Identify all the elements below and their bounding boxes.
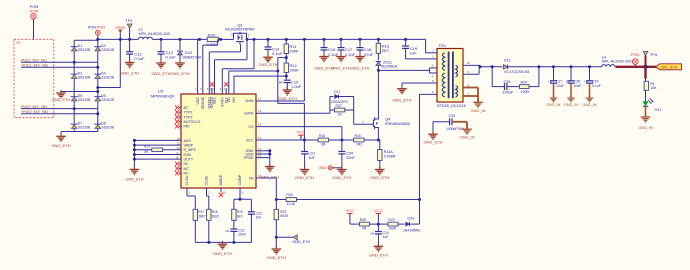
svg-text:HV: HV bbox=[566, 80, 570, 84]
svg-text:R30: R30 bbox=[287, 193, 293, 197]
svg-text:IPB156N06N06: IPB156N06N06 bbox=[385, 122, 410, 126]
svg-text:GND_ETH: GND_ETH bbox=[213, 251, 232, 256]
svg-text:200K: 200K bbox=[290, 49, 300, 54]
svg-text:TR1: TR1 bbox=[439, 43, 447, 48]
svg-text:MPL-AL5030-100: MPL-AL5030-100 bbox=[602, 60, 632, 64]
svg-text:MODE: MODE bbox=[219, 174, 223, 185]
svg-text:GND_IN: GND_IN bbox=[638, 126, 653, 130]
svg-text:1uF: 1uF bbox=[383, 235, 389, 239]
svg-text:GND_ETH: GND_ETH bbox=[267, 255, 286, 260]
svg-text:C27: C27 bbox=[556, 80, 562, 84]
svg-text:GATE: GATE bbox=[244, 112, 254, 116]
svg-text:15: 15 bbox=[258, 123, 262, 127]
svg-text:VS-4TQ100S-M3: VS-4TQ100S-M3 bbox=[504, 70, 529, 74]
svg-text:HV: HV bbox=[225, 229, 229, 233]
svg-text:SS310B: SS310B bbox=[101, 126, 114, 130]
svg-text:COMP: COMP bbox=[238, 174, 242, 185]
svg-text:AVIN: AVIN bbox=[245, 99, 254, 103]
svg-text:TYP2: TYP2 bbox=[184, 115, 193, 119]
svg-text:SS310B: SS310B bbox=[78, 48, 91, 52]
svg-text:R_MPS: R_MPS bbox=[184, 148, 197, 152]
svg-text:HV: HV bbox=[584, 80, 588, 84]
svg-text:11.4K: 11.4K bbox=[287, 202, 296, 206]
svg-text:0.1uF: 0.1uF bbox=[592, 84, 601, 88]
svg-text:GND_ETH: GND_ETH bbox=[52, 98, 70, 102]
svg-text:R21: R21 bbox=[280, 210, 286, 214]
svg-text:1R2: 1R2 bbox=[356, 142, 362, 146]
svg-text:2R: 2R bbox=[321, 142, 326, 146]
svg-text:GND_ETH: GND_ETH bbox=[332, 175, 351, 180]
svg-text:0.1uF: 0.1uF bbox=[166, 54, 177, 59]
svg-text:1nF: 1nF bbox=[256, 215, 262, 219]
svg-text:100uF: 100uF bbox=[503, 91, 514, 95]
svg-text:1uF: 1uF bbox=[308, 156, 315, 160]
svg-text:2: 2 bbox=[248, 33, 250, 37]
svg-text:1R: 1R bbox=[338, 112, 343, 116]
svg-text:R18: R18 bbox=[212, 210, 218, 214]
svg-text:MPL-AL5030-100: MPL-AL5030-100 bbox=[139, 31, 171, 36]
svg-text:TP4: TP4 bbox=[650, 52, 658, 57]
svg-text:EFD25_10/12/16: EFD25_10/12/16 bbox=[437, 104, 466, 108]
svg-text:R24: R24 bbox=[521, 80, 528, 84]
svg-text:R1: R1 bbox=[650, 82, 655, 86]
svg-text:GND_ETH: GND_ETH bbox=[295, 175, 314, 180]
svg-text:DUTY: DUTY bbox=[184, 158, 194, 162]
svg-text:0.008R: 0.008R bbox=[384, 155, 396, 159]
svg-text:SS310B: SS310B bbox=[78, 98, 91, 102]
svg-text:HV: HV bbox=[548, 80, 552, 84]
svg-text:14: 14 bbox=[258, 136, 262, 140]
svg-text:EN: EN bbox=[227, 97, 231, 102]
svg-text:VCC: VCC bbox=[374, 208, 383, 213]
svg-text:28K7: 28K7 bbox=[198, 214, 206, 218]
svg-text:GND_ETH: GND_ETH bbox=[350, 66, 369, 71]
svg-text:10uF: 10uF bbox=[556, 84, 564, 88]
svg-text:GND_IN: GND_IN bbox=[564, 103, 578, 107]
svg-text:PON: PON bbox=[97, 25, 105, 29]
svg-text:GND_ETH: GND_ETH bbox=[331, 66, 350, 71]
svg-text:20V_SYS: 20V_SYS bbox=[661, 65, 678, 69]
svg-text:HV: HV bbox=[370, 232, 374, 236]
svg-text:D24: D24 bbox=[408, 216, 414, 220]
svg-text:TP1: TP1 bbox=[125, 18, 133, 23]
svg-text:C28: C28 bbox=[574, 80, 580, 84]
svg-text:D31: D31 bbox=[655, 108, 662, 112]
svg-text:GND: GND bbox=[319, 166, 327, 170]
svg-text:GND_ETH: GND_ETH bbox=[278, 96, 297, 101]
svg-text:R14A: R14A bbox=[384, 150, 394, 154]
svg-text:R26: R26 bbox=[360, 218, 366, 222]
svg-text:P1: P1 bbox=[17, 41, 21, 45]
svg-text:PON: PON bbox=[88, 25, 96, 29]
svg-text:PPAD: PPAD bbox=[244, 156, 254, 160]
svg-text:GND_IN: GND_IN bbox=[547, 103, 561, 107]
svg-text:MP6908GQF: MP6908GQF bbox=[151, 93, 175, 98]
svg-text:SS310B: SS310B bbox=[78, 126, 91, 130]
svg-text:CLSB: CLSB bbox=[205, 176, 209, 186]
svg-text:6K3: 6K3 bbox=[237, 214, 243, 218]
svg-text:CS: CS bbox=[249, 125, 255, 129]
svg-text:R10: R10 bbox=[208, 33, 216, 38]
svg-text:SM6A27HA: SM6A27HA bbox=[183, 56, 202, 60]
svg-text:VIN: VIN bbox=[232, 97, 236, 103]
svg-text:AUX: AUX bbox=[184, 139, 192, 143]
svg-text:SS310B: SS310B bbox=[101, 76, 114, 80]
svg-text:0.1uF: 0.1uF bbox=[272, 51, 283, 56]
svg-text:D11: D11 bbox=[504, 59, 510, 63]
svg-text:VCC: VCC bbox=[297, 130, 306, 135]
svg-text:GND_ETH: GND_ETH bbox=[392, 98, 411, 103]
svg-text:22nF: 22nF bbox=[346, 156, 355, 160]
svg-text:6K29: 6K29 bbox=[280, 214, 288, 218]
svg-text:GND_ETH: GND_ETH bbox=[369, 253, 388, 258]
svg-text:GND_ETH: GND_ETH bbox=[423, 140, 442, 145]
svg-text:D12: D12 bbox=[185, 50, 193, 55]
svg-text:C29: C29 bbox=[592, 80, 598, 84]
svg-text:SS310B: SS310B bbox=[101, 98, 114, 102]
svg-text:SENSE: SENSE bbox=[201, 96, 205, 109]
svg-text:R23: R23 bbox=[144, 145, 150, 149]
svg-text:200K: 200K bbox=[290, 68, 300, 73]
svg-text:PRI: PRI bbox=[184, 125, 190, 129]
svg-text:11: 11 bbox=[177, 142, 180, 146]
svg-text:R19: R19 bbox=[237, 210, 243, 214]
svg-text:VCC: VCC bbox=[246, 138, 254, 142]
svg-text:C25: C25 bbox=[449, 114, 456, 118]
svg-text:R16: R16 bbox=[319, 134, 325, 138]
svg-text:15nF: 15nF bbox=[238, 233, 246, 237]
svg-text:R15: R15 bbox=[355, 134, 361, 138]
svg-text:TYP1: TYP1 bbox=[184, 111, 193, 115]
svg-text:SS310B: SS310B bbox=[78, 76, 91, 80]
svg-text:1nF: 1nF bbox=[410, 50, 417, 55]
svg-text:D17: D17 bbox=[334, 90, 341, 94]
svg-text:GND_ETH: GND_ETH bbox=[51, 143, 70, 148]
svg-text:0.1uF: 0.1uF bbox=[134, 56, 145, 61]
svg-text:BT: BT bbox=[184, 106, 189, 110]
svg-text:FB: FB bbox=[249, 176, 254, 180]
svg-text:0R: 0R bbox=[362, 226, 367, 230]
svg-text:0R: 0R bbox=[144, 150, 149, 154]
svg-text:PON: PON bbox=[631, 53, 639, 57]
svg-text:SEC: SEC bbox=[213, 97, 217, 105]
svg-text:3: 3 bbox=[231, 33, 233, 37]
svg-text:AUTOCLS: AUTOCLS bbox=[184, 120, 202, 124]
svg-text:GND_IN: GND_IN bbox=[459, 135, 474, 140]
svg-text:GND_IN: GND_IN bbox=[583, 103, 597, 107]
svg-text:NC: NC bbox=[184, 167, 190, 171]
svg-text:2.2uF: 2.2uF bbox=[345, 52, 356, 57]
svg-text:10: 10 bbox=[467, 61, 471, 65]
svg-text:100K: 100K bbox=[388, 226, 397, 230]
svg-text:VPOE: VPOE bbox=[115, 26, 126, 30]
svg-text:GND_ETH: GND_ETH bbox=[151, 71, 170, 76]
svg-text:12: 12 bbox=[177, 137, 181, 141]
svg-text:IRLR2905TRPBF: IRLR2905TRPBF bbox=[225, 28, 255, 32]
svg-text:C26: C26 bbox=[504, 80, 511, 84]
svg-text:R17: R17 bbox=[198, 210, 204, 214]
svg-text:SS310B: SS310B bbox=[101, 48, 114, 52]
svg-text:PON: PON bbox=[30, 9, 39, 14]
svg-text:2K7: 2K7 bbox=[382, 48, 390, 53]
svg-text:GND_ETH: GND_ETH bbox=[125, 177, 143, 181]
svg-text:100R: 100R bbox=[521, 90, 530, 94]
svg-text:NC: NC bbox=[184, 162, 190, 166]
svg-text:61K2: 61K2 bbox=[212, 214, 220, 218]
svg-text:GND_ETH: GND_ETH bbox=[370, 175, 389, 180]
svg-text:GND_ETH: GND_ETH bbox=[120, 71, 139, 76]
svg-text:GND_ETH: GND_ETH bbox=[258, 62, 277, 67]
svg-text:E2M: E2M bbox=[184, 153, 191, 157]
svg-text:GND_IN: GND_IN bbox=[470, 108, 485, 113]
svg-text:CLSA: CLSA bbox=[185, 176, 189, 186]
svg-text:R37: R37 bbox=[336, 104, 342, 108]
svg-text:SE20NEA: SE20NEA bbox=[381, 65, 398, 69]
svg-text:VADP: VADP bbox=[184, 144, 194, 148]
svg-text:17: 17 bbox=[258, 97, 262, 101]
svg-text:10K: 10K bbox=[650, 86, 657, 90]
svg-text:VDD: VDD bbox=[196, 97, 200, 105]
svg-text:R22: R22 bbox=[388, 218, 394, 222]
svg-text:13: 13 bbox=[258, 109, 262, 113]
svg-text:VCC: VCC bbox=[346, 208, 355, 213]
svg-text:19: 19 bbox=[223, 191, 227, 195]
svg-text:GND_ETH: GND_ETH bbox=[170, 71, 189, 76]
svg-text:1.0uF: 1.0uF bbox=[291, 84, 302, 89]
svg-text:1000pF/2kV: 1000pF/2kV bbox=[446, 127, 465, 131]
svg-text:1N4148WS: 1N4148WS bbox=[403, 228, 421, 232]
svg-text:NC: NC bbox=[184, 172, 190, 176]
svg-text:GND_ETH: GND_ETH bbox=[293, 240, 311, 244]
svg-text:47uF: 47uF bbox=[364, 52, 374, 57]
svg-text:10uF: 10uF bbox=[574, 84, 582, 88]
